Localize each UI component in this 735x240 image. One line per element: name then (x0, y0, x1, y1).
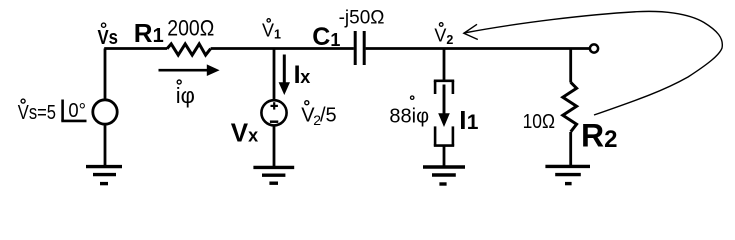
resistor R2 (563, 82, 577, 132)
svg-text:R2: R2 (581, 117, 617, 153)
wire: source Vs to ground (104, 125, 107, 166)
resistor R1 (167, 44, 211, 55)
svg-text:10Ω: 10Ω (523, 111, 555, 133)
ground (below I1) (423, 167, 465, 184)
svg-text:0°: 0° (68, 100, 86, 122)
svg-text:88iφ: 88iφ (389, 106, 429, 128)
wire: C1 to open terminal (366, 47, 590, 50)
label node V1 (phasor ring) (262, 19, 281, 42)
svg-text:V1: V1 (262, 21, 281, 42)
current arrow inside I1 (438, 85, 450, 128)
svg-text:iφ: iφ (176, 83, 195, 108)
wire: I1 to ground (443, 146, 446, 167)
minus sign inside Vx (270, 120, 278, 123)
svg-text:V2/5: V2/5 (301, 104, 336, 127)
svg-text:Ix: Ix (294, 61, 311, 89)
ground (below Vx) (253, 167, 294, 183)
label V2/5 (phasor ring) (301, 101, 336, 128)
wire: R2 to ground (569, 132, 572, 166)
ground (below R2) (545, 166, 590, 183)
wire: R1 to capacitor C1 (211, 47, 354, 50)
voltage source Vs circle (93, 100, 117, 124)
wire top left: Vs node to R1 (104, 47, 167, 50)
svg-text:Vs=5: Vs=5 (18, 102, 56, 124)
open terminal (590, 44, 598, 52)
wire: node V1 down to Vx source (273, 49, 276, 101)
ground (below Vs) (86, 167, 122, 184)
label i-phi (phasor ring) (176, 80, 195, 108)
dependent voltage source Vx circle (261, 100, 286, 125)
current arrow Ix (279, 55, 290, 96)
svg-text:Vx: Vx (231, 117, 258, 147)
wire: Vx source to ground (273, 126, 276, 167)
wire: node Vs down to source (104, 49, 107, 101)
wire: node V2 down to I1 (443, 49, 446, 81)
capacitor C1 plates (355, 31, 364, 65)
svg-text:Vs: Vs (98, 27, 119, 49)
angle symbol (61, 100, 86, 121)
current source I1 (broken-rectangle symbol) (434, 81, 454, 146)
svg-text:200Ω: 200Ω (167, 15, 214, 40)
label Vs=5 angle 0 (18, 99, 87, 124)
value 88 i-phi (phasor ring) (389, 96, 429, 128)
svg-text:C1: C1 (312, 23, 340, 51)
plus sign inside Vx (271, 102, 278, 109)
svg-text:-j50Ω: -j50Ω (339, 7, 385, 28)
label node V2 (phasor ring) (434, 23, 453, 47)
svg-text:I1: I1 (459, 105, 479, 135)
svg-text:R1: R1 (134, 18, 164, 48)
wire: node V2/terminal down to R2 (569, 49, 572, 83)
label node Vs (phasor ring) (98, 23, 119, 49)
feedback curve arrow to node V2 (464, 11, 723, 115)
svg-text:V2: V2 (434, 26, 453, 48)
current direction arrow i-phi (159, 64, 220, 76)
